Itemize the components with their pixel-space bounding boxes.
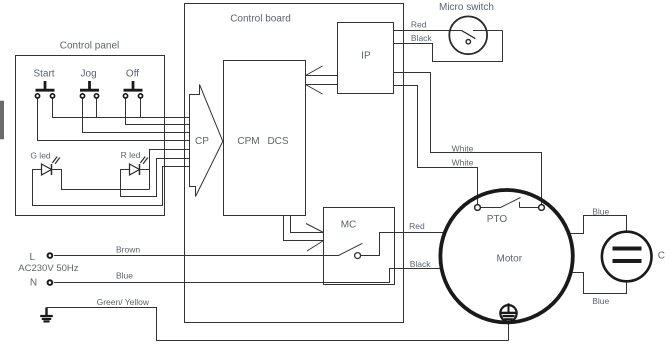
svg-text:Blue: Blue — [116, 271, 133, 281]
svg-text:AC230V 50Hz: AC230V 50Hz — [18, 263, 78, 274]
svg-text:Red: Red — [409, 221, 425, 231]
svg-text:Jog: Jog — [81, 69, 97, 80]
svg-text:Control panel: Control panel — [60, 41, 119, 52]
svg-text:G led: G led — [30, 151, 51, 161]
svg-text:CPM: CPM — [237, 136, 259, 147]
svg-text:Brown: Brown — [116, 245, 140, 255]
svg-text:White: White — [452, 157, 474, 167]
svg-text:R led: R led — [121, 150, 141, 160]
svg-text:Control board: Control board — [230, 14, 291, 25]
svg-text:DCS: DCS — [267, 136, 288, 147]
svg-text:Black: Black — [411, 33, 433, 43]
svg-text:Red: Red — [411, 20, 427, 30]
svg-text:Motor: Motor — [497, 254, 523, 265]
svg-text:PTO: PTO — [487, 214, 508, 225]
svg-text:L: L — [30, 252, 36, 263]
svg-text:Blue: Blue — [592, 296, 609, 306]
svg-text:Black: Black — [410, 259, 432, 269]
svg-text:White: White — [452, 143, 474, 153]
svg-text:Start: Start — [33, 69, 54, 80]
svg-text:Green/ Yellow: Green/ Yellow — [97, 297, 150, 307]
svg-text:IP: IP — [361, 51, 371, 62]
svg-text:Blue: Blue — [592, 207, 609, 217]
svg-text:Micro switch: Micro switch — [439, 2, 494, 13]
svg-text:C: C — [658, 251, 665, 262]
svg-text:N: N — [30, 278, 37, 289]
svg-text:Off: Off — [126, 69, 139, 80]
svg-text:MC: MC — [341, 220, 357, 231]
svg-text:CP: CP — [195, 136, 209, 147]
